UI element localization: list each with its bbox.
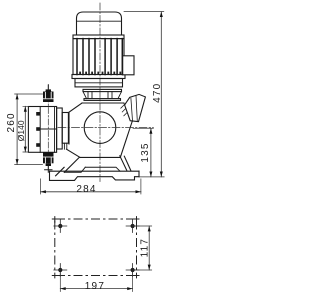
base plate top <box>50 170 140 172</box>
ext lines 284 <box>41 179 141 194</box>
pump head outer <box>28 107 56 153</box>
dim line d140 <box>24 106 26 152</box>
lantern ring A <box>57 108 63 149</box>
oil cup internal lines <box>131 96 137 122</box>
stand left slope outer <box>56 167 65 176</box>
ext lines 197 <box>60 273 132 292</box>
adapter bottom plate <box>84 99 121 101</box>
extension line top 470 <box>124 11 164 13</box>
svg-text:Ø140: Ø140 <box>16 120 26 141</box>
dim line 260 <box>16 94 18 165</box>
ext lines 117 <box>135 226 152 270</box>
ext lines d140 <box>23 106 29 152</box>
pump body outline <box>69 103 132 157</box>
adapter side slants <box>83 92 122 99</box>
stand right slope outer <box>124 156 131 170</box>
motor bottom flange <box>75 79 123 87</box>
stand right slope inner <box>120 156 127 171</box>
motor top band <box>73 35 124 39</box>
body bottom-left chamfer <box>67 149 81 157</box>
svg-text:117: 117 <box>140 238 151 258</box>
extension line 135 top <box>133 127 153 129</box>
svg-text:135: 135 <box>140 142 151 162</box>
motor fins <box>77 39 122 75</box>
bottom valve fitting <box>43 152 54 166</box>
ext lines 260 <box>15 94 43 165</box>
hole crosshairs <box>54 220 139 277</box>
terminal box <box>123 56 134 75</box>
oil cup plug <box>125 94 146 121</box>
fin base dots <box>79 72 121 75</box>
crankcase circle <box>84 112 116 144</box>
dim line 197 <box>60 288 132 290</box>
dim line 135 <box>150 128 152 177</box>
extension line base bottom right <box>140 176 165 178</box>
inclined face hatch <box>121 103 129 115</box>
svg-text:197: 197 <box>85 281 105 292</box>
motor fin body <box>73 39 124 75</box>
centerline motor/body vertical <box>99 3 101 182</box>
base plate right edge <box>138 171 140 177</box>
top valve fitting <box>43 89 54 102</box>
head inner vertical <box>39 107 41 153</box>
dim texts <box>6 83 163 292</box>
footprint rect dash-dot <box>55 219 137 276</box>
circle crosshair horizontal <box>58 127 153 129</box>
head centerline <box>47 85 49 171</box>
stand left arch underside <box>64 167 85 172</box>
adapter columns <box>88 92 112 99</box>
motor cap seam <box>77 20 122 22</box>
motor lower band <box>72 75 125 79</box>
head right double line <box>54 107 56 153</box>
motor cap <box>77 12 122 35</box>
adapter top plate <box>83 89 122 91</box>
svg-text:470: 470 <box>152 83 163 103</box>
stand middle arch <box>85 167 120 171</box>
body inclined face top-right <box>124 103 132 121</box>
drain verticals below ring B <box>64 143 66 149</box>
stand left slope inner <box>64 158 79 173</box>
dim line 284 <box>41 191 141 193</box>
head middle split line <box>40 128 56 130</box>
footprint corner overshoots <box>52 217 139 278</box>
dim line 117 <box>148 226 150 270</box>
head bolt squares <box>36 112 40 147</box>
base plate bottom + feet pads <box>50 171 140 180</box>
dim line 470 <box>160 12 162 177</box>
lantern ring B <box>62 113 68 144</box>
arrows <box>16 12 163 291</box>
flange seam <box>75 82 123 84</box>
bolt hole TL <box>59 224 135 271</box>
svg-text:284: 284 <box>76 184 96 195</box>
